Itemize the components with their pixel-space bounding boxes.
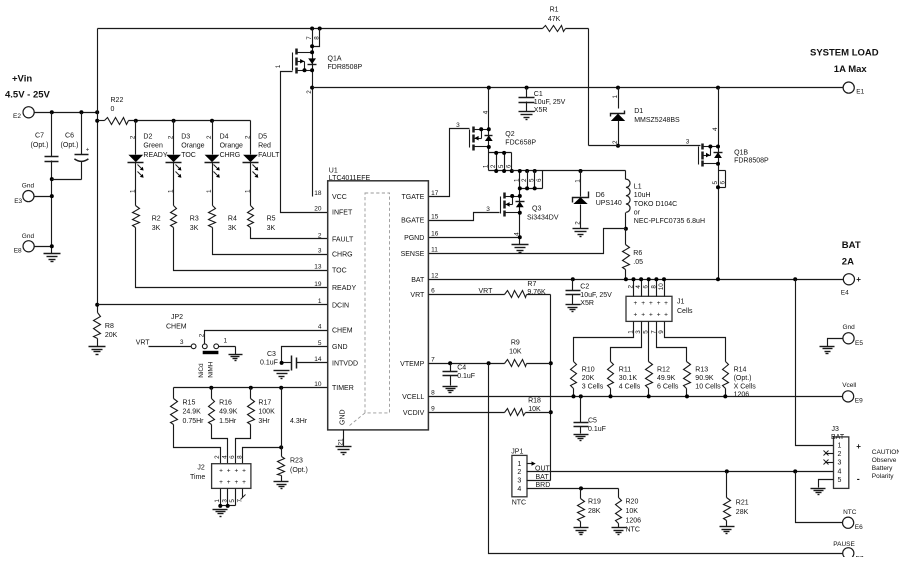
svg-text:5: 5 [498, 164, 505, 168]
resistor R19 [578, 489, 601, 528]
svg-text:E4: E4 [841, 290, 849, 297]
wire BGATE to Q3 gate [429, 206, 500, 221]
resistor R4 [209, 206, 237, 232]
svg-text:(Opt.): (Opt.) [290, 467, 308, 474]
svg-text:+: + [227, 479, 231, 486]
wire J1 pin9 to R14 [665, 322, 726, 362]
wire VTEMP net [429, 363, 551, 365]
svg-text:4: 4 [222, 455, 229, 459]
connector JP1 NTC [511, 449, 527, 507]
ground below E8 [44, 254, 61, 262]
svg-text:21: 21 [337, 438, 344, 446]
svg-text:C5: C5 [588, 418, 597, 425]
svg-text:1: 1 [838, 442, 842, 449]
resistor R10 [571, 362, 604, 399]
svg-text:D3: D3 [181, 133, 190, 140]
ground below C5 [574, 435, 589, 441]
svg-text:Gnd: Gnd [22, 183, 35, 190]
svg-text:1: 1 [612, 94, 619, 98]
svg-text:5: 5 [712, 180, 719, 184]
svg-text:3K: 3K [267, 225, 276, 232]
svg-text:2: 2 [838, 451, 842, 458]
svg-text:6: 6 [431, 288, 435, 295]
svg-text:E2: E2 [13, 113, 21, 120]
wire DCIN net [98, 304, 328, 306]
resistor R15 [171, 388, 205, 426]
transistor Q3 [501, 169, 559, 245]
svg-text:+: + [242, 468, 246, 475]
capacitor C2 [566, 280, 613, 308]
svg-text:TOC: TOC [181, 152, 196, 159]
connector J1 Cells [626, 296, 693, 321]
resistor R8 [94, 313, 118, 347]
svg-text:0: 0 [111, 106, 115, 113]
svg-text:0.75Hr: 0.75Hr [183, 418, 205, 425]
svg-text:(Opt.): (Opt.) [734, 375, 752, 382]
svg-text:7: 7 [306, 36, 313, 40]
svg-text:4 Cells: 4 Cells [619, 383, 641, 390]
svg-text:3: 3 [686, 139, 690, 146]
svg-text:17: 17 [431, 190, 439, 197]
svg-text:1: 1 [223, 338, 227, 345]
svg-text:R3: R3 [190, 216, 199, 223]
svg-text:+: + [657, 312, 661, 319]
wires J1 top pins to BAT [627, 277, 666, 296]
svg-text:2: 2 [306, 90, 313, 94]
svg-text:10uF, 25V: 10uF, 25V [580, 292, 612, 299]
svg-text:R14: R14 [734, 367, 747, 374]
junction VRT/R9 [549, 361, 553, 365]
wire PGND to Q3 source [429, 235, 522, 239]
junction BAT/R6 [624, 277, 628, 281]
wire JP1 pin4 to R19 R20 [527, 488, 619, 490]
label caution [872, 449, 899, 480]
svg-text:12: 12 [431, 273, 439, 280]
ground below J2 [213, 510, 228, 517]
transistor Q1B [699, 88, 770, 280]
ground below C3/GND [274, 371, 290, 379]
resistor R12 [646, 362, 679, 399]
svg-text:UPS140: UPS140 [596, 200, 622, 207]
svg-text:+: + [235, 468, 239, 475]
svg-text:R15: R15 [183, 399, 196, 406]
svg-text:3K: 3K [228, 225, 237, 232]
ground at JP2 [229, 355, 243, 361]
svg-text:+: + [235, 479, 239, 486]
svg-text:9.76K: 9.76K [527, 289, 546, 296]
junction VTEMP/PAUSE [487, 361, 491, 365]
svg-text:R23: R23 [290, 458, 303, 465]
junction C7/C6 bottom [50, 177, 54, 181]
junction R22/D2 [134, 119, 138, 123]
svg-text:R21: R21 [736, 499, 749, 506]
junction VCC rail D1 [616, 86, 620, 90]
junction top rail Q1A pin7 [310, 27, 314, 31]
resistor R2 [133, 206, 161, 232]
svg-text:Gnd: Gnd [22, 233, 35, 240]
svg-text:+: + [856, 442, 861, 451]
svg-text:2: 2 [627, 285, 634, 289]
svg-text:9: 9 [658, 330, 665, 334]
svg-text:CAUTION!: CAUTION! [872, 449, 899, 456]
svg-text:10uH: 10uH [634, 192, 651, 199]
junction R21 [725, 469, 729, 473]
junction TIMER/R23 [279, 386, 283, 390]
wire SENSE net [429, 229, 626, 254]
resistor R1 [543, 7, 566, 32]
svg-text:28K: 28K [588, 508, 601, 515]
ground below R8 [89, 347, 106, 355]
wire VCDIV net [429, 412, 551, 414]
svg-text:BAT: BAT [831, 434, 845, 441]
svg-text:FDR8508P: FDR8508P [328, 64, 363, 71]
svg-text:Q1A: Q1A [328, 55, 342, 62]
junction VCC rail Q1B [716, 86, 720, 90]
svg-text:D2: D2 [143, 133, 152, 140]
svg-text:49.9K: 49.9K [219, 409, 238, 416]
svg-text:NTC: NTC [626, 527, 640, 534]
svg-text:2: 2 [318, 232, 322, 239]
svg-text:BAT: BAT [536, 474, 550, 481]
svg-text:Q3: Q3 [532, 206, 541, 213]
svg-text:FDR8508P: FDR8508P [734, 157, 769, 164]
svg-text:SYSTEM LOAD: SYSTEM LOAD [810, 48, 879, 59]
svg-text:1: 1 [206, 189, 213, 193]
net label +Vin [5, 74, 51, 101]
svg-text:VRT: VRT [410, 292, 425, 299]
junction R23/J2pin8 [279, 445, 283, 449]
svg-text:2: 2 [490, 164, 497, 168]
inductor L1 [626, 171, 706, 229]
svg-text:3: 3 [517, 478, 521, 485]
resistor R22 [98, 97, 251, 125]
svg-text:0.1uF: 0.1uF [260, 360, 278, 367]
svg-text:5: 5 [838, 477, 842, 484]
svg-text:NEC-PLFC0735 6.8uH: NEC-PLFC0735 6.8uH [634, 218, 705, 225]
svg-text:Green: Green [143, 143, 163, 150]
svg-text:JP1: JP1 [511, 449, 523, 456]
terminal E4 BAT [841, 240, 862, 297]
resistor R13 [684, 362, 722, 399]
junction BAT/J3 [793, 277, 797, 281]
LED D5 [243, 121, 281, 206]
svg-text:Si3434DV: Si3434DV [527, 214, 559, 221]
junction BAT/C2 [571, 277, 575, 281]
svg-text:R20: R20 [626, 499, 639, 506]
svg-text:VCDIV: VCDIV [403, 410, 425, 417]
resistor R21 [724, 472, 749, 527]
svg-text:+: + [242, 479, 246, 486]
wire J2 pin1 to ground [214, 489, 221, 506]
svg-text:BGATE: BGATE [401, 218, 425, 225]
wire Q1A gate to INFET [275, 64, 328, 212]
svg-text:3K: 3K [152, 225, 161, 232]
resistor R6 [623, 229, 644, 280]
svg-text:R12: R12 [657, 367, 670, 374]
svg-text:CHRG: CHRG [220, 152, 241, 159]
svg-text:BAT: BAT [411, 277, 425, 284]
svg-text:GND: GND [339, 409, 346, 425]
ground below R19 [574, 528, 589, 535]
svg-text:1: 1 [574, 179, 581, 183]
svg-text:30.1K: 30.1K [619, 375, 638, 382]
junction bus/R22 [95, 119, 99, 123]
svg-text:L1: L1 [634, 184, 642, 191]
svg-text:TGATE: TGATE [401, 194, 424, 201]
svg-text:2: 2 [199, 333, 206, 337]
svg-text:3: 3 [180, 339, 184, 346]
svg-text:6: 6 [536, 178, 543, 182]
svg-text:1: 1 [168, 189, 175, 193]
junction E2/bus [95, 110, 99, 114]
svg-text:CHRG: CHRG [332, 252, 353, 259]
svg-text:8: 8 [650, 285, 657, 289]
junction R22/D4 [210, 119, 214, 123]
ground below C4 [443, 387, 458, 393]
svg-text:DCIN: DCIN [332, 302, 349, 309]
svg-text:LTC4011EFE: LTC4011EFE [329, 175, 371, 182]
svg-text:MMSZ5248BS: MMSZ5248BS [634, 117, 680, 124]
terminal E5 Gnd [828, 324, 864, 347]
wire VIN top rail [98, 28, 589, 30]
svg-text:18: 18 [314, 190, 322, 197]
J3 pin2 key mark [824, 451, 834, 456]
svg-text:CHEM: CHEM [166, 324, 187, 331]
wire VCC rail [313, 87, 844, 89]
wire J1 pin7 to R13 [657, 322, 687, 362]
resistor R11 [608, 362, 641, 399]
wire JP1 pin3 BRD [527, 481, 551, 490]
capacitor C3 [260, 351, 328, 371]
junction L1/R6/SENSE [624, 227, 628, 231]
junction VCELL/C5 [579, 394, 583, 398]
svg-text:24.9K: 24.9K [183, 409, 202, 416]
junction R22/D3 [172, 119, 176, 123]
svg-text:+: + [664, 300, 668, 307]
svg-text:R10: R10 [582, 367, 595, 374]
label J3 minus [857, 474, 860, 484]
svg-text:X5R: X5R [580, 300, 594, 307]
svg-text:GND: GND [332, 344, 348, 351]
svg-text:1: 1 [244, 189, 251, 193]
ground below C2 [566, 305, 581, 312]
wire J2 pin7 stub [236, 489, 245, 503]
svg-text:.05: .05 [633, 259, 643, 266]
svg-text:20K: 20K [105, 332, 118, 339]
wire R17 to J2 pin6 [236, 425, 251, 464]
resistor R7 [429, 281, 551, 298]
svg-text:+: + [664, 312, 668, 319]
svg-text:R9: R9 [511, 340, 520, 347]
svg-text:NTC: NTC [512, 500, 526, 507]
svg-text:C7: C7 [35, 133, 44, 140]
svg-text:NiMH: NiMH [207, 361, 214, 378]
op-amp U1 LTC4011EFE [314, 168, 438, 430]
svg-text:13: 13 [314, 263, 322, 270]
svg-text:INFET: INFET [332, 210, 353, 217]
svg-text:2: 2 [244, 135, 251, 139]
svg-text:U1: U1 [329, 168, 338, 175]
svg-text:+: + [856, 275, 861, 284]
resistor R3 [171, 206, 199, 232]
svg-text:NTC: NTC [843, 509, 857, 516]
junction TIMER/R16 [209, 386, 213, 390]
ground below R23 [274, 482, 289, 489]
wire GND pin5 [282, 347, 328, 363]
svg-text:Time: Time [190, 474, 205, 481]
svg-text:5: 5 [529, 178, 536, 182]
svg-text:1: 1 [130, 189, 137, 193]
svg-text:28K: 28K [736, 509, 749, 516]
wire J1 pin1 to R10 [574, 322, 634, 362]
svg-text:2: 2 [574, 221, 581, 225]
wire NTC to E6 [796, 472, 843, 523]
junction NTC wire [793, 469, 797, 473]
svg-text:VCELL: VCELL [402, 394, 424, 401]
svg-text:Vcell: Vcell [842, 382, 857, 389]
svg-text:6: 6 [719, 180, 726, 184]
wire SW node [512, 170, 626, 172]
svg-text:R4: R4 [228, 216, 237, 223]
svg-text:R17: R17 [258, 399, 271, 406]
ground below U1 pin 21 [336, 447, 352, 455]
svg-text:FAULT: FAULT [332, 237, 354, 244]
net label 4.3Hr [290, 418, 308, 425]
svg-text:10: 10 [658, 283, 665, 291]
svg-text:D4: D4 [220, 133, 229, 140]
svg-text:or: or [634, 209, 641, 216]
svg-text:D1: D1 [634, 108, 643, 115]
svg-text:+: + [649, 300, 653, 307]
resistor R17 [248, 388, 276, 426]
svg-text:+: + [227, 468, 231, 475]
terminal E9 Vcell [842, 382, 863, 404]
svg-text:E3: E3 [14, 198, 22, 205]
diode D6 UPS140 [573, 171, 622, 229]
label J3 plus [856, 442, 861, 451]
ground below Q3 [512, 245, 529, 253]
svg-text:R1: R1 [550, 7, 559, 14]
transistor Q1A [293, 29, 363, 197]
wire R16 to J2 pin4 [212, 425, 228, 464]
svg-text:-: - [857, 474, 860, 484]
svg-text:+: + [649, 312, 653, 319]
svg-text:Battery: Battery [872, 465, 893, 472]
svg-text:3: 3 [456, 122, 460, 129]
svg-text:+: + [634, 300, 638, 307]
wire J2 pin3 [222, 489, 229, 506]
terminal E6 NTC [843, 509, 864, 531]
svg-text:VTEMP: VTEMP [400, 361, 424, 368]
svg-text:+: + [219, 468, 223, 475]
connector J2 Time [190, 455, 251, 489]
svg-text:C4: C4 [457, 365, 466, 372]
svg-text:8: 8 [236, 455, 243, 459]
svg-text:3 Cells: 3 Cells [582, 383, 604, 390]
svg-text:4: 4 [517, 486, 521, 493]
junction Q1A drain VCC rail [310, 86, 314, 90]
svg-text:D6: D6 [596, 192, 605, 199]
svg-text:FDC658P: FDC658P [505, 139, 536, 146]
svg-text:FAULT: FAULT [258, 152, 280, 159]
svg-text:90.9K: 90.9K [695, 375, 714, 382]
svg-text:X Cells: X Cells [734, 383, 757, 390]
svg-text:5: 5 [229, 499, 236, 503]
svg-text:1: 1 [514, 178, 521, 182]
svg-text:7: 7 [431, 357, 435, 364]
resistor R18 [505, 398, 542, 416]
wire E2 to Vin bus [35, 112, 98, 114]
svg-text:2: 2 [168, 135, 175, 139]
ground below C1 [519, 112, 535, 120]
junction R19 [579, 486, 583, 490]
terminal E2 [13, 107, 34, 120]
svg-text:R2: R2 [152, 216, 161, 223]
svg-text:0.1uF: 0.1uF [588, 426, 606, 433]
svg-text:+: + [219, 479, 223, 486]
capacitor C6 [52, 113, 90, 180]
wire FAULT net R5 to pin2 [251, 228, 328, 239]
svg-text:E6: E6 [855, 524, 863, 531]
JP1 pin1 arrow OUT [527, 461, 551, 472]
wire PAUSE net [489, 364, 843, 554]
svg-text:+: + [657, 300, 661, 307]
svg-text:19: 19 [314, 281, 322, 288]
svg-text:TOKO D104C: TOKO D104C [634, 201, 677, 208]
wire TOC net R3 to pin13 [174, 228, 328, 271]
junction E3 [50, 194, 54, 198]
svg-text:VRT: VRT [479, 288, 494, 295]
svg-text:4: 4 [483, 110, 490, 114]
svg-text:+Vin: +Vin [12, 74, 32, 85]
junction E2/C7 [50, 110, 54, 114]
junction VCC rail Q2 [487, 86, 491, 90]
svg-text:6: 6 [229, 455, 236, 459]
svg-text:1206: 1206 [626, 517, 642, 524]
svg-text:R5: R5 [267, 216, 276, 223]
svg-text:Orange: Orange [220, 143, 243, 150]
svg-text:R18: R18 [528, 398, 541, 405]
terminal E1 system load [810, 48, 879, 96]
svg-text:PAUSE: PAUSE [833, 541, 855, 548]
LED D4 [205, 121, 244, 206]
svg-text:R19: R19 [588, 499, 601, 506]
resistor R20 [616, 489, 642, 534]
wire CHRG net R4 to pin3 [213, 228, 328, 255]
junction top rail Q1A pin8 [318, 27, 322, 31]
svg-text:4: 4 [712, 127, 719, 131]
svg-text:R16: R16 [219, 399, 232, 406]
svg-text:READY: READY [332, 285, 356, 292]
J3 pin3 key mark [824, 460, 834, 465]
svg-text:3Hr: 3Hr [258, 418, 270, 425]
svg-text:3: 3 [486, 206, 490, 213]
svg-text:TIMER: TIMER [332, 385, 354, 392]
svg-text:16: 16 [431, 231, 439, 238]
resistor R9 [505, 340, 527, 367]
capacitor C5 [574, 397, 606, 434]
svg-text:1: 1 [275, 64, 282, 68]
svg-text:E5: E5 [855, 340, 863, 347]
svg-text:C3: C3 [267, 351, 276, 358]
svg-text:4: 4 [514, 232, 521, 236]
LED D3 [166, 121, 205, 206]
svg-text:2A: 2A [842, 257, 854, 268]
svg-text:2: 2 [214, 455, 221, 459]
svg-text:PGND: PGND [404, 235, 424, 242]
svg-text:0.1uF: 0.1uF [457, 373, 475, 380]
svg-text:4.3Hr: 4.3Hr [290, 418, 308, 425]
